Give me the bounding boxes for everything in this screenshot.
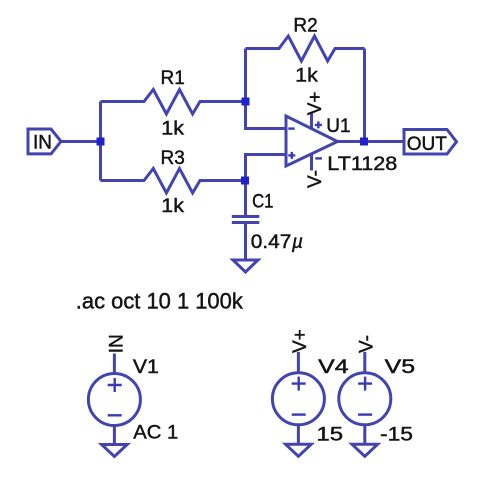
svg-text:V1: V1	[133, 357, 159, 378]
svg-text:R2: R2	[293, 16, 317, 37]
svg-text:C1: C1	[252, 191, 273, 212]
svg-text:V+: V+	[305, 92, 326, 116]
svg-text:V5: V5	[385, 357, 416, 378]
svg-text:IN: IN	[106, 334, 127, 353]
svg-text:OUT: OUT	[407, 134, 448, 155]
svg-text:V-: V-	[357, 335, 378, 353]
svg-text:1k: 1k	[295, 66, 318, 87]
svg-text:µ: µ	[291, 232, 303, 253]
svg-text:V-: V-	[305, 170, 326, 188]
svg-text:15: 15	[316, 425, 343, 446]
svg-text:V+: V+	[290, 329, 311, 353]
svg-text:0.47: 0.47	[251, 232, 291, 253]
svg-text:-15: -15	[380, 425, 413, 446]
svg-text:IN: IN	[33, 133, 52, 154]
svg-text:.ac oct 10 1 100k: .ac oct 10 1 100k	[76, 288, 243, 313]
svg-text:R1: R1	[161, 68, 185, 89]
svg-text:U1: U1	[326, 116, 350, 137]
svg-text:V4: V4	[318, 357, 349, 378]
svg-text:LT1128: LT1128	[327, 154, 397, 175]
svg-text:R3: R3	[161, 148, 185, 169]
svg-text:1k: 1k	[161, 196, 184, 217]
svg-text:1k: 1k	[161, 119, 184, 140]
svg-text:AC 1: AC 1	[133, 423, 178, 444]
